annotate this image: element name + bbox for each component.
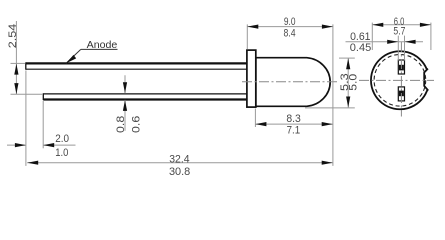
dimension 5.3/5.0 arrow down — [346, 97, 350, 108]
shared right extension line — [332, 24, 334, 166]
dimension 5.3/5.0 arrow up — [346, 58, 350, 69]
dimension 8.3/7.1 line — [255, 123, 333, 125]
dimension 0.8/0.6 lower arrow line — [124, 100, 126, 131]
dimension 2.54 extension top — [11, 62, 26, 64]
dimension 2.54 line — [15, 21, 17, 94]
dimension 8.3/7.1 arrow left — [255, 122, 266, 126]
dimension 0.61/0.45 arrow right-pointing — [387, 40, 398, 44]
svg-text:32.4: 32.4 — [169, 154, 189, 166]
bottom lead tab solid core — [399, 91, 404, 97]
dimension 6.0/5.7 left extension — [371, 23, 373, 50]
dimension 9.0/8.4 line — [247, 26, 333, 28]
dimension 8.3/7.1 left extension — [254, 109, 256, 128]
cathode lead (bottom lead, side view) — [43, 93, 247, 95]
dimension 0.61/0.45 line — [346, 41, 424, 43]
dimension 6.0/5.7 right extension — [430, 23, 432, 50]
svg-text:0.6: 0.6 — [130, 116, 142, 133]
tab width extension left — [397, 36, 399, 61]
dimension 5.3/5.0 line — [347, 58, 349, 107]
dimension 0.8/0.6 upper arrow line — [124, 75, 126, 93]
flange (base rim, side view) — [247, 50, 256, 107]
dimension 2.54 arrow up — [14, 64, 18, 75]
bottom lead tab (bottom view) — [398, 87, 404, 101]
LED package outline with flat (bottom view) — [371, 51, 428, 109]
dimension 6.0/5.7 arrow right — [420, 23, 431, 27]
vertical center line of bottom view — [400, 42, 402, 117]
dimension 6.0/5.7 arrow left — [372, 23, 383, 27]
horizontal center line of bottom view — [359, 79, 434, 81]
svg-text:2.0: 2.0 — [55, 133, 69, 145]
dimension 2.0/1.0 right tail — [43, 144, 75, 146]
anode lead (top lead, side view) — [26, 62, 247, 64]
Anode leader arrowhead — [66, 55, 76, 63]
dimension 9.0/8.4 arrow right — [322, 25, 333, 29]
dimension 9.0/8.4 arrow left — [247, 25, 258, 29]
dimension 2.54 arrow down — [14, 83, 18, 94]
svg-text:5.0: 5.0 — [348, 74, 360, 91]
center line of side view — [242, 81, 337, 83]
svg-text:1.0: 1.0 — [55, 147, 68, 159]
svg-text:0.8: 0.8 — [115, 116, 127, 133]
hidden inner circle (dashed) — [374, 55, 426, 107]
dimension 2.54 extension bottom — [11, 93, 44, 95]
svg-text:8.4: 8.4 — [284, 28, 296, 40]
dimension 2.0/1.0 arrow right-pointing — [15, 143, 26, 147]
Anode leader line — [66, 49, 81, 63]
dimension 0.8/0.6 arrow up — [123, 100, 127, 111]
svg-text:0.45: 0.45 — [350, 42, 372, 54]
svg-text:5.7: 5.7 — [393, 26, 405, 38]
dimension 0.61/0.45 arrow left-pointing — [405, 40, 416, 44]
Anode label underline — [81, 48, 118, 50]
dimension 6.0/5.7 line — [372, 24, 431, 26]
dimension 5.3/5.0 bottom extension stub — [305, 107, 355, 109]
extension line from cathode lead end — [42, 101, 44, 148]
tab width extension right — [404, 36, 406, 61]
top lead tab solid core — [399, 65, 404, 71]
dimension 2.0/1.0 arrow left-pointing — [43, 143, 54, 147]
svg-text:9.0: 9.0 — [284, 16, 296, 28]
dimension 8.3/7.1 arrow right — [322, 122, 333, 126]
LED body (epoxy cylinder with dome, side view) — [256, 58, 330, 107]
dimension 9.0/8.4 left extension — [246, 24, 248, 49]
dimension 32.4/30.8 arrow right — [322, 161, 333, 165]
svg-text:8.3: 8.3 — [286, 113, 301, 125]
svg-text:30.8: 30.8 — [169, 166, 190, 178]
svg-text:7.1: 7.1 — [287, 124, 301, 136]
dimension 5.3/5.0 top extension stub — [339, 57, 355, 59]
top lead tab (bottom view) — [398, 60, 404, 74]
dimension 0.8/0.6 arrow down — [123, 82, 127, 93]
dimension 2.0/1.0 left tail — [7, 144, 26, 146]
dimension 32.4/30.8 arrow left — [27, 161, 38, 165]
svg-text:2.54: 2.54 — [7, 24, 19, 49]
extension line from anode lead end — [25, 71, 27, 166]
dimension 32.4/30.8 line — [27, 162, 333, 164]
